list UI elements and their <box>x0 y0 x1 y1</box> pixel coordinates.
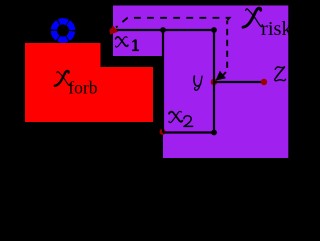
arrowhead at y (black) <box>216 71 226 81</box>
label x1 <box>116 37 128 47</box>
dashed vertical into y arrow <box>222 21 227 77</box>
region X_risk (purple staircase polygon) <box>113 6 288 159</box>
dashed path from x1 around to y <box>116 18 230 28</box>
node junction dot (214,30) <box>211 27 217 33</box>
label X_risk script X <box>243 8 262 27</box>
arrowhead at x1 (dark red) <box>110 25 119 34</box>
label x2 <box>169 111 182 122</box>
label z <box>275 67 286 81</box>
svg-text:risk: risk <box>261 18 290 40</box>
label y <box>194 76 202 90</box>
label X_forb script X <box>55 71 70 86</box>
node x2 dot <box>160 129 166 135</box>
region X_forb (red staircase polygon) <box>25 43 153 122</box>
node x1 dot <box>109 28 115 34</box>
node z dot <box>261 79 267 85</box>
svg-text:forb: forb <box>68 78 98 98</box>
wire x2 horizontal <box>163 131 214 133</box>
wire vertical through y <box>213 30 215 133</box>
blue dashed ring marker <box>50 18 76 44</box>
node junction dot (214,132.5) <box>211 130 217 136</box>
node y dot <box>211 79 218 86</box>
wire y to z <box>214 81 264 83</box>
wire vertical through x2 <box>162 30 164 133</box>
node junction dot (163,30) <box>160 27 166 33</box>
wire x1 to top junction <box>113 29 214 31</box>
